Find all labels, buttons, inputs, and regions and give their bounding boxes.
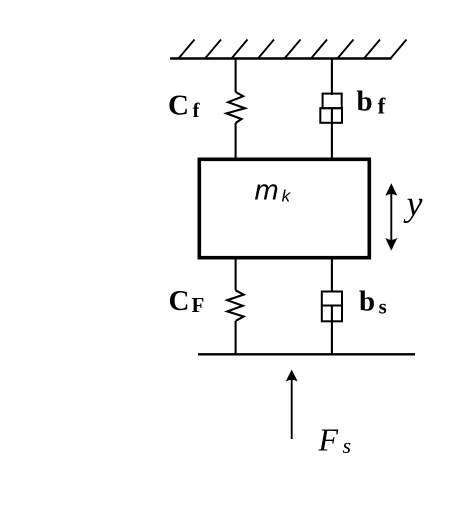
- displacement arrow y (double-headed): [385, 183, 397, 250]
- wire ceiling to damper bf: [331, 59, 333, 96]
- spring Cf: [227, 92, 246, 123]
- damper bs piston divider: [322, 305, 342, 307]
- svg-text:Fs: Fs: [318, 422, 352, 459]
- spring CF: [227, 290, 243, 321]
- damper bf lower box: [320, 108, 342, 123]
- svg-text:CF: CF: [169, 285, 205, 317]
- ceiling hatch marks: [179, 40, 407, 59]
- force arrow Fs: [286, 370, 298, 440]
- wire spring Cf to mass: [235, 123, 237, 159]
- wire spring CF to base: [235, 321, 237, 355]
- svg-text:bs: bs: [359, 286, 387, 319]
- wire mass to spring CF: [235, 257, 237, 290]
- mass mk block: [199, 159, 369, 257]
- wire damper bs piston rod to base: [331, 306, 333, 355]
- wire ceiling to spring Cf: [235, 59, 237, 93]
- base line: [198, 353, 415, 355]
- ceiling line: [170, 57, 392, 59]
- svg-text:Cf: Cf: [168, 90, 200, 123]
- wire mass to damper bs: [331, 257, 333, 293]
- damper bf upper box: [323, 94, 342, 109]
- damper bs cylinder: [322, 292, 342, 322]
- svg-text:y: y: [404, 184, 423, 224]
- svg-text:bf: bf: [357, 86, 386, 119]
- wire damper bf piston rod to mass: [331, 108, 333, 159]
